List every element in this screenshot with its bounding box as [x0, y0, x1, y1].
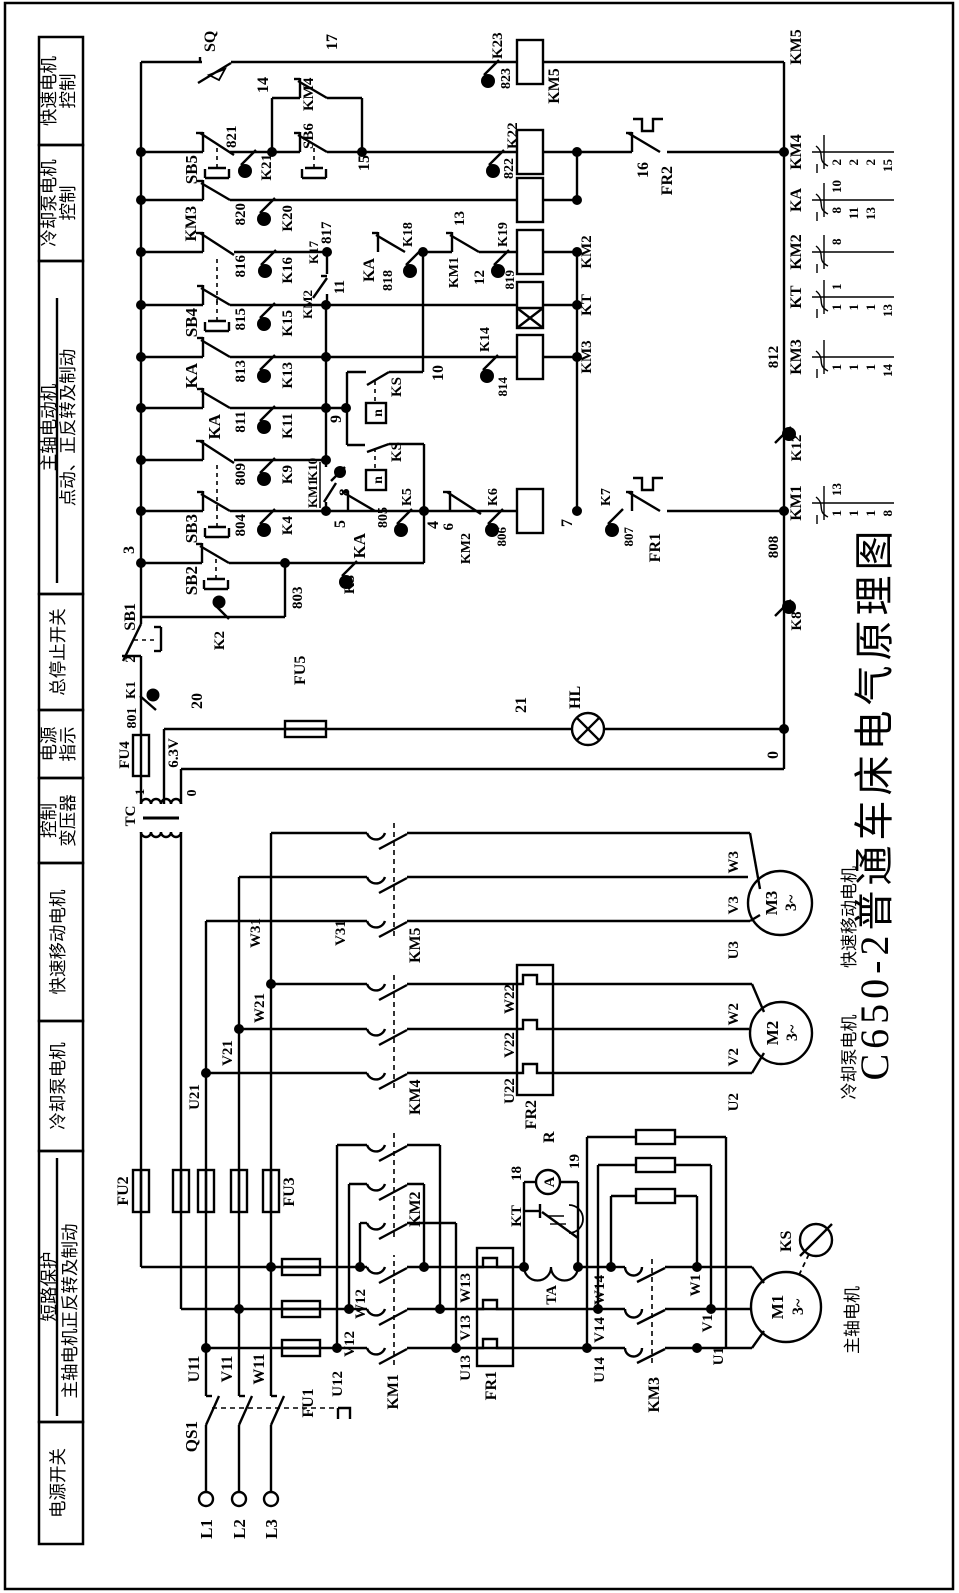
svg-text:TA: TA	[544, 1285, 560, 1305]
input terminal L2	[232, 1492, 246, 1506]
V phase drop	[234, 1304, 244, 1314]
svg-text:2: 2	[863, 159, 878, 166]
svg-text:W13: W13	[458, 1273, 474, 1303]
header divider line (主轴电动机 cell)	[56, 298, 58, 583]
svg-text:1: 1	[846, 364, 861, 371]
svg-text:823: 823	[499, 68, 514, 89]
svg-text:0: 0	[185, 790, 200, 797]
reversing contactor KM2 taps	[336, 1145, 338, 1348]
compound button SB4 NO half	[202, 285, 204, 305]
svg-text:K12: K12	[789, 435, 805, 462]
svg-text:1: 1	[132, 789, 147, 796]
svg-text:21: 21	[513, 697, 530, 713]
svg-text:SB3: SB3	[182, 514, 201, 543]
svg-text:K10: K10	[305, 458, 320, 481]
KS dashed link to n box (upper)	[374, 381, 376, 401]
delayed contact KT	[524, 1210, 540, 1212]
speed relay contact KS (lower, wire 4)	[367, 444, 389, 452]
svg-text:冷却泵电机: 冷却泵电机	[840, 1015, 859, 1100]
junction on top bus	[136, 352, 146, 362]
svg-text:4: 4	[425, 521, 442, 529]
speed relay contact KS (upper, wire 10)	[367, 372, 389, 385]
svg-text:SB2: SB2	[182, 566, 201, 595]
svg-text:U1: U1	[711, 1347, 727, 1365]
svg-text:U2: U2	[726, 1093, 742, 1111]
svg-text:K6: K6	[486, 488, 501, 506]
svg-text:821: 821	[224, 126, 240, 149]
svg-text:M2: M2	[763, 1021, 782, 1046]
svg-text:快速电机: 快速电机	[39, 56, 59, 126]
input terminal L1	[199, 1492, 213, 1506]
svg-text:SQ: SQ	[202, 31, 219, 52]
svg-text:801: 801	[125, 708, 140, 729]
svg-text:13: 13	[880, 304, 895, 318]
KM2 pole b	[349, 1183, 367, 1185]
svg-text:2: 2	[846, 159, 861, 166]
svg-text:5: 5	[332, 520, 349, 528]
svg-text:16: 16	[635, 162, 652, 178]
svg-text:817: 817	[319, 221, 335, 244]
svg-text:804: 804	[233, 514, 249, 537]
branch rejoin	[357, 147, 367, 157]
svg-text:FU1: FU1	[300, 1388, 317, 1417]
terminal K18	[406, 250, 421, 265]
fuse FU5	[285, 721, 326, 737]
svg-text:KM1: KM1	[385, 1374, 402, 1410]
junction on top bus	[136, 247, 146, 257]
ammeter A	[536, 1170, 560, 1194]
coil KA	[517, 178, 543, 222]
svg-text:10: 10	[829, 180, 844, 193]
header divider line (短路保护 cell)	[56, 1158, 58, 1416]
svg-text:K16: K16	[280, 257, 296, 284]
svg-text:K1: K1	[124, 681, 139, 699]
rung KM5 wire	[141, 61, 202, 63]
svg-text:K2: K2	[212, 631, 228, 650]
svg-text:3~: 3~	[790, 1298, 807, 1315]
coolant pump motor M2	[750, 1002, 812, 1064]
svg-text:W11: W11	[251, 1353, 268, 1384]
svg-text:变压器: 变压器	[58, 794, 78, 847]
svg-text:K8: K8	[789, 611, 805, 630]
rail wire 8	[325, 502, 327, 511]
svg-text:KA: KA	[182, 362, 201, 388]
svg-text:U11: U11	[186, 1356, 203, 1383]
terminal K5	[397, 509, 412, 524]
svg-text:14: 14	[255, 77, 272, 93]
terminal K19	[494, 250, 509, 265]
compound button SB3 NC half	[202, 440, 204, 460]
svg-text:822: 822	[502, 158, 517, 179]
terminal K4	[260, 509, 275, 524]
rung wire 9 KA branch	[141, 407, 203, 409]
svg-text:KS: KS	[389, 377, 405, 397]
svg-text:KM2: KM2	[788, 234, 805, 270]
junction on top bus	[136, 403, 146, 413]
jog button SB2 (NO)	[201, 543, 203, 563]
svg-text:KS: KS	[389, 442, 405, 462]
KM2 pole a	[360, 1222, 367, 1224]
stop button SB5 (NC)	[202, 132, 204, 152]
svg-text:HL: HL	[567, 686, 584, 709]
svg-text:805: 805	[376, 507, 391, 528]
svg-text:SB1: SB1	[122, 603, 139, 631]
svg-text:M1: M1	[768, 1295, 787, 1320]
svg-text:FR1: FR1	[647, 533, 664, 562]
svg-text:C650-2普通车床电气原理图: C650-2普通车床电气原理图	[852, 526, 897, 1081]
svg-text:控制: 控制	[58, 186, 78, 221]
self-hold contact KM4	[272, 97, 300, 99]
svg-text:812: 812	[766, 346, 782, 369]
short-circuit contacts KM3 (3 poles)	[587, 1347, 625, 1349]
rapid branch corners	[206, 920, 367, 922]
speed relay KS paddle	[799, 1254, 809, 1275]
svg-text:V22: V22	[502, 1032, 518, 1058]
W phase drop	[266, 1262, 276, 1272]
control feed wire from TC	[140, 776, 142, 804]
svg-text:V2: V2	[726, 1048, 742, 1066]
svg-text:K19: K19	[496, 222, 511, 247]
TC core	[143, 817, 179, 820]
control transformer TC	[141, 799, 181, 804]
coil KM4	[517, 130, 543, 174]
svg-text:主轴电机正反转及制动: 主轴电机正反转及制动	[60, 1224, 80, 1399]
motor M3 leads bend	[750, 915, 760, 921]
QS1 pole	[270, 1425, 272, 1492]
svg-text:8: 8	[880, 510, 895, 517]
svg-text:KA: KA	[361, 258, 378, 282]
coil KT with delay section	[517, 282, 543, 328]
svg-text:K17: K17	[306, 240, 321, 264]
fuse FU4	[133, 735, 149, 776]
svg-text:TC: TC	[123, 806, 139, 827]
svg-text:U3: U3	[726, 941, 742, 959]
coil KM5	[517, 40, 543, 84]
svg-text:FR2: FR2	[523, 1100, 540, 1129]
FR1 heater elements	[477, 1339, 513, 1348]
svg-text:808: 808	[766, 536, 782, 559]
aux contact KM3	[202, 180, 204, 200]
svg-text:KA: KA	[350, 532, 369, 558]
thermal relay FR1 heater block	[477, 1248, 513, 1366]
interlock contact KM2 (NC) on KM1 rung	[449, 491, 451, 511]
junction to KS wire 10	[418, 247, 428, 257]
svg-text:KM1: KM1	[788, 485, 805, 521]
current transformer TA on W phase	[524, 1267, 578, 1281]
interlock contact KM2 (NC) on link	[326, 252, 328, 274]
svg-text:n: n	[371, 409, 386, 417]
svg-text:820: 820	[233, 203, 249, 226]
svg-text:V1: V1	[700, 1314, 716, 1332]
main motor M1	[751, 1272, 821, 1342]
svg-text:总停止开关: 总停止开关	[48, 608, 68, 696]
TC primary feed wires (via FU3)	[140, 832, 142, 1267]
junction 817 with link to KT rung	[322, 247, 332, 257]
indicator lamp HL	[572, 713, 604, 745]
svg-text:KM2: KM2	[459, 533, 474, 564]
svg-text:U21: U21	[187, 1084, 203, 1110]
svg-text:K7: K7	[599, 488, 614, 506]
svg-text:KM5: KM5	[788, 29, 805, 65]
svg-text:2: 2	[123, 655, 139, 663]
svg-text:V3: V3	[726, 896, 742, 914]
rail wire 7	[576, 252, 578, 511]
6.3V tap lead	[163, 729, 165, 804]
svg-text:809: 809	[233, 463, 249, 486]
svg-text:19: 19	[567, 1154, 583, 1169]
aux contact KM1 on KM2 rung	[423, 251, 452, 253]
svg-text:主轴电机: 主轴电机	[843, 1286, 862, 1354]
thermal relay FR2 heater block	[517, 965, 553, 1095]
svg-text:K3: K3	[342, 575, 358, 594]
svg-text:SB4: SB4	[182, 308, 201, 338]
svg-text:U12: U12	[330, 1371, 346, 1397]
svg-text:9: 9	[328, 415, 345, 423]
svg-text:815: 815	[233, 308, 249, 331]
wire joining KT coil to rail 7	[543, 304, 577, 306]
svg-text:U13: U13	[458, 1355, 474, 1381]
junction wire 803	[280, 558, 290, 568]
terminal K1	[140, 696, 156, 710]
terminal K16	[261, 250, 276, 265]
terminal K10 on rail 8	[331, 467, 345, 481]
wires to motor M1	[665, 1347, 697, 1349]
svg-text:3: 3	[121, 546, 138, 554]
svg-text:KM4: KM4	[788, 134, 805, 170]
bus V11	[238, 877, 240, 1396]
terminal K21	[241, 150, 256, 165]
svg-text:FR1: FR1	[483, 1371, 500, 1400]
junction on top bus	[136, 558, 146, 568]
svg-text:W3: W3	[726, 851, 742, 874]
svg-text:W2: W2	[726, 1003, 742, 1026]
svg-text:1: 1	[829, 510, 844, 517]
svg-text:KS: KS	[778, 1231, 795, 1252]
svg-text:K22: K22	[505, 122, 521, 149]
svg-text:K4: K4	[280, 516, 296, 536]
main contacts KM1 (3 poles)	[367, 1348, 385, 1354]
svg-text:L1: L1	[197, 1519, 216, 1539]
self-hold contact KM1 on rail 8	[324, 483, 336, 502]
svg-text:803: 803	[290, 587, 306, 610]
svg-text:17: 17	[324, 34, 341, 50]
junction on top bus	[136, 300, 146, 310]
svg-text:K15: K15	[280, 310, 296, 337]
svg-text:12: 12	[472, 270, 488, 285]
svg-text:KM3: KM3	[788, 339, 805, 375]
svg-text:K21: K21	[259, 154, 275, 181]
limit switch SQ	[199, 57, 201, 62]
svg-text:807: 807	[621, 527, 636, 547]
svg-text:M3: M3	[762, 891, 781, 916]
svg-text:6: 6	[441, 523, 457, 531]
svg-text:V31: V31	[333, 920, 349, 946]
terminal K2 on 803 wire	[214, 604, 229, 619]
wire 803 loop	[141, 616, 285, 618]
svg-text:819: 819	[502, 270, 517, 290]
svg-text:3~: 3~	[783, 894, 800, 911]
svg-text:K14: K14	[478, 327, 493, 352]
rung wire SB3-NC branch	[141, 459, 203, 461]
junction on top bus	[136, 147, 146, 157]
wire 4 link to KM1 rung	[423, 511, 425, 563]
compound button SB3 NO half	[202, 491, 204, 511]
control top bus wire 3	[140, 62, 142, 624]
svg-text:KM4: KM4	[407, 1079, 424, 1115]
svg-text:U14: U14	[592, 1357, 608, 1383]
svg-text:快速移动电机: 快速移动电机	[840, 866, 859, 968]
QS1 pole	[205, 1425, 207, 1492]
terminal K20	[260, 198, 275, 213]
svg-text:FU3: FU3	[281, 1177, 298, 1206]
svg-text:点动、正反转及制动: 点动、正反转及制动	[58, 349, 78, 507]
terminal K3	[342, 561, 357, 576]
svg-text:15: 15	[880, 159, 895, 173]
bus U11	[205, 921, 207, 1396]
junction rail 7	[572, 506, 582, 516]
svg-text:K11: K11	[280, 413, 296, 439]
svg-text:快速移动电机: 快速移动电机	[48, 889, 68, 994]
aux contact KA on KM3 rung	[202, 337, 204, 357]
svg-text:KM5: KM5	[546, 68, 563, 104]
svg-text:W22: W22	[502, 984, 518, 1014]
ammeter bypass loop with KT contact	[519, 1262, 529, 1272]
svg-text:KM5: KM5	[407, 927, 424, 963]
svg-text:KT: KT	[788, 285, 805, 308]
svg-text:13: 13	[829, 483, 844, 497]
svg-text:指示: 指示	[58, 727, 78, 762]
KM2 pole c	[337, 1144, 367, 1146]
junction on top bus	[136, 506, 146, 516]
svg-text:U22: U22	[502, 1078, 518, 1104]
svg-text:R: R	[541, 1131, 558, 1143]
QS1 handle	[338, 1408, 350, 1419]
rung KT wire	[141, 304, 203, 306]
svg-text:FU5: FU5	[292, 656, 309, 685]
svg-text:FR2: FR2	[659, 166, 676, 195]
wire joining KM2 coil to rail 7	[543, 251, 577, 253]
svg-text:控制: 控制	[39, 803, 59, 838]
svg-text:11: 11	[332, 280, 348, 294]
master stop switch SB1	[122, 655, 141, 657]
svg-text:K5: K5	[400, 488, 415, 506]
svg-text:FU4: FU4	[117, 741, 133, 769]
svg-text:14: 14	[880, 364, 895, 378]
svg-text:W31: W31	[248, 918, 264, 948]
rung KM3 wire	[141, 356, 203, 358]
svg-text:818: 818	[381, 270, 396, 291]
svg-text:L2: L2	[230, 1519, 249, 1539]
motor M1 leads bend	[752, 1331, 764, 1348]
terminal K15	[260, 303, 275, 318]
start button SB6 (NO)	[272, 151, 300, 153]
coolant branch taps	[201, 1068, 211, 1078]
KM2 outputs (phase swap)	[407, 1183, 424, 1185]
svg-text:806: 806	[494, 527, 509, 547]
svg-text:KA: KA	[788, 188, 805, 212]
wire joining KA coil to FR2 rung	[543, 199, 577, 201]
svg-text:W1: W1	[688, 1274, 704, 1297]
svg-text:1: 1	[846, 510, 861, 517]
svg-text:1: 1	[863, 304, 878, 311]
svg-text:L3: L3	[262, 1519, 281, 1539]
terminal K23	[484, 60, 499, 75]
SB1 mushroom cap	[160, 627, 162, 651]
svg-text:控制: 控制	[58, 74, 78, 109]
svg-text:816: 816	[233, 255, 249, 278]
terminal K11	[260, 406, 275, 421]
terminal K9	[260, 458, 275, 473]
terminal K6	[488, 509, 503, 524]
svg-text:K18: K18	[401, 222, 416, 247]
svg-text:电源: 电源	[39, 727, 59, 762]
svg-text:V11: V11	[219, 1356, 236, 1383]
svg-text:1: 1	[846, 304, 861, 311]
svg-text:1: 1	[863, 364, 878, 371]
svg-text:13: 13	[452, 211, 468, 226]
svg-text:V14: V14	[592, 1317, 608, 1343]
terminal K7	[608, 509, 623, 524]
terminal K22	[489, 150, 504, 165]
svg-text:814: 814	[495, 377, 510, 397]
svg-text:V12: V12	[342, 1331, 358, 1357]
svg-text:KM2: KM2	[407, 1191, 424, 1227]
svg-text:QS1: QS1	[182, 1421, 201, 1452]
rung KM2 wire	[141, 251, 203, 253]
rail wire 9 (KS common)	[346, 372, 348, 445]
svg-text:FU2: FU2	[115, 1176, 132, 1205]
svg-text:20: 20	[189, 693, 206, 709]
junction wire 4	[419, 506, 429, 516]
rung KA wire	[141, 199, 203, 201]
svg-text:KM3: KM3	[646, 1377, 663, 1413]
bus W11	[270, 833, 272, 1396]
svg-text:n: n	[371, 476, 386, 484]
QS1 gang dashed link	[212, 1407, 338, 1409]
svg-text:W12: W12	[353, 1289, 369, 1319]
svg-text:A: A	[542, 1176, 558, 1187]
svg-text:0: 0	[765, 751, 782, 759]
aux contact KA on KM2 rung	[377, 232, 379, 252]
junction on top bus	[136, 455, 146, 465]
terminal K14	[483, 355, 498, 370]
motor M2 leads bend	[752, 1053, 764, 1073]
rail8 junction on KM3 rung	[321, 352, 331, 362]
terminal K8 on bottom bus	[775, 600, 791, 616]
wires below KM1	[407, 1347, 587, 1349]
svg-text:SB6: SB6	[301, 123, 317, 149]
svg-text:2: 2	[829, 159, 844, 166]
svg-text:11: 11	[846, 207, 861, 219]
svg-text:1: 1	[829, 304, 844, 311]
svg-text:KA: KA	[205, 413, 224, 439]
svg-text:8: 8	[337, 489, 353, 497]
svg-text:15: 15	[356, 155, 373, 171]
U phase drop to FU1	[201, 1343, 211, 1353]
rail8 junction on KM1 rung	[321, 506, 331, 516]
QS1 pole	[238, 1425, 240, 1492]
control bottom bus wire 0	[783, 62, 785, 769]
svg-text:10: 10	[430, 365, 447, 381]
rail8 junction	[321, 300, 331, 310]
coil KM2	[517, 230, 543, 274]
svg-text:KM1: KM1	[305, 479, 320, 508]
terminal K13	[260, 355, 275, 370]
terminal K12 on bottom bus	[775, 427, 791, 443]
svg-text:1: 1	[829, 284, 844, 291]
rung KM4 wire	[141, 151, 203, 153]
svg-text:K13: K13	[280, 362, 296, 389]
